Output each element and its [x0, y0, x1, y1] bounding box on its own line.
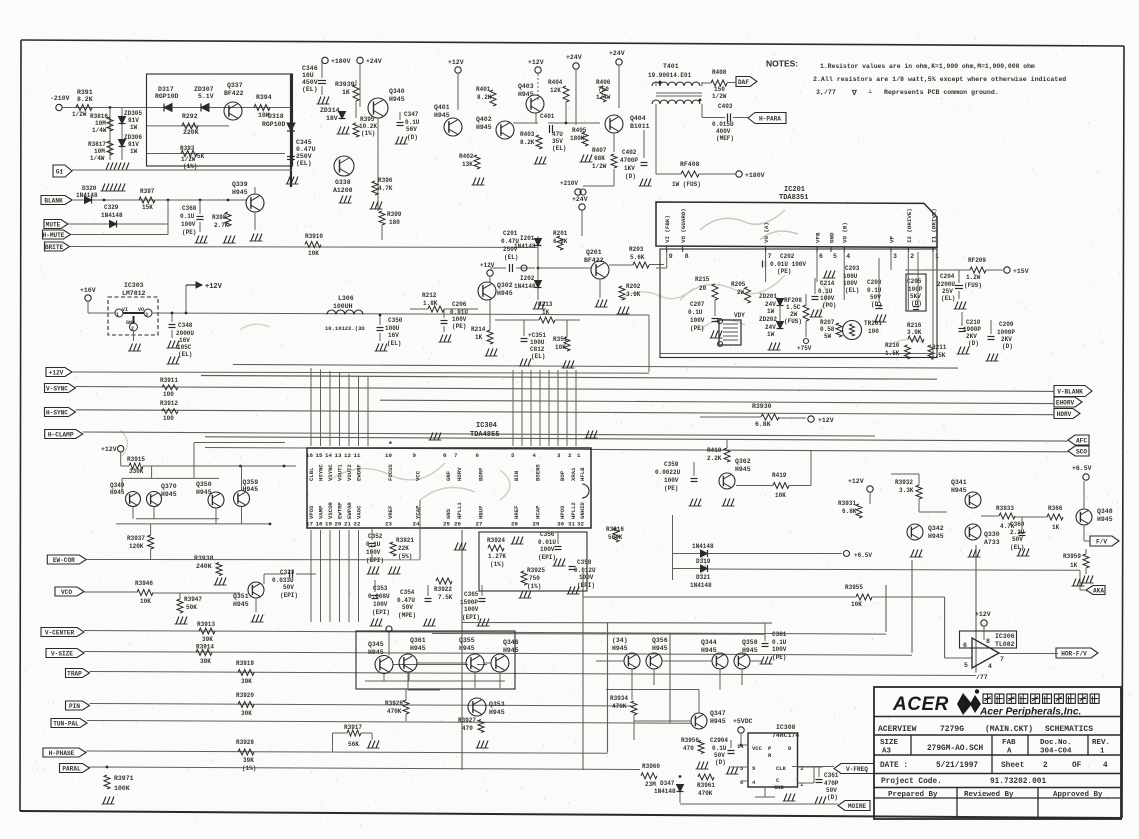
svg-text:C201: C201 [503, 230, 518, 237]
svg-text:1.5C: 1.5C [786, 304, 801, 311]
svg-text:1W (FUS): 1W (FUS) [672, 181, 701, 188]
svg-text:R3912: R3912 [160, 400, 178, 407]
svg-text:H945: H945 [503, 647, 519, 654]
svg-text:R3937: R3937 [127, 535, 145, 542]
svg-text:REV.: REV. [1092, 739, 1110, 747]
svg-text:ZD202: ZD202 [759, 316, 777, 323]
svg-text:MUTE: MUTE [46, 221, 61, 228]
svg-text:(EL): (EL) [552, 145, 566, 152]
svg-text:1K: 1K [542, 309, 550, 316]
svg-text:0.0022U: 0.0022U [655, 469, 681, 476]
svg-text:4.7K: 4.7K [378, 185, 393, 192]
svg-text:10U: 10U [302, 72, 314, 79]
svg-text:50V: 50V [402, 604, 413, 611]
svg-text:(PE): (PE) [182, 229, 196, 236]
svg-text:TDA4855: TDA4855 [470, 431, 499, 439]
svg-text:39K: 39K [241, 678, 252, 685]
svg-text:20: 20 [699, 285, 707, 292]
svg-text:3.9K: 3.9K [907, 329, 922, 336]
svg-text:(EL): (EL) [302, 86, 318, 93]
svg-text:R211: R211 [932, 344, 947, 351]
svg-text:Q401: Q401 [434, 104, 450, 111]
svg-text:+24V: +24V [366, 58, 382, 65]
svg-text:R3920: R3920 [236, 692, 254, 699]
svg-text:100V: 100V [843, 280, 858, 287]
svg-text:R3932: R3932 [895, 479, 913, 486]
svg-text:10K: 10K [775, 492, 786, 499]
svg-text:1N4148: 1N4148 [692, 543, 714, 550]
svg-text:D317: D317 [158, 86, 174, 93]
svg-text:100V: 100V [579, 574, 594, 581]
svg-text:750: 750 [529, 575, 540, 582]
svg-text:Q345: Q345 [368, 641, 384, 648]
svg-text:C812: C812 [530, 346, 545, 353]
svg-text:Q341: Q341 [951, 479, 967, 486]
svg-text:6: 6 [476, 452, 480, 459]
svg-text:(EPI): (EPI) [366, 557, 384, 564]
svg-text:C365: C365 [464, 591, 479, 598]
svg-text:GNS: GNS [445, 508, 452, 519]
svg-text:H945: H945 [161, 491, 177, 498]
svg-text:12: 12 [344, 452, 351, 459]
svg-text:V-SIZE: V-SIZE [51, 650, 73, 657]
svg-text:R3926: R3926 [385, 700, 403, 707]
svg-text:5.1V: 5.1V [198, 93, 214, 100]
svg-text:0.1U: 0.1U [772, 639, 787, 646]
svg-text:NOTES:: NOTES: [766, 59, 798, 69]
svg-text:15K: 15K [142, 204, 153, 211]
svg-text:H945: H945 [476, 124, 492, 131]
svg-text:R3933: R3933 [996, 505, 1014, 512]
svg-text:C403: C403 [718, 103, 733, 110]
svg-text:BRITE: BRITE [45, 244, 64, 251]
svg-text:0.47U: 0.47U [296, 146, 316, 153]
svg-text:100V: 100V [690, 317, 705, 324]
svg-text:0.015U: 0.015U [712, 121, 734, 128]
svg-text:120K: 120K [129, 543, 144, 550]
svg-text:DATE :: DATE : [880, 762, 908, 770]
svg-text:GND: GND [774, 784, 785, 791]
svg-text:7279G: 7279G [940, 725, 964, 734]
svg-text:(EPI): (EPI) [462, 614, 480, 621]
svg-text:H945: H945 [742, 647, 758, 654]
svg-text:D321: D321 [696, 574, 711, 581]
svg-text:C209: C209 [999, 321, 1014, 328]
svg-text:C208: C208 [867, 279, 882, 286]
svg-text:I2 (DRIVE): I2 (DRIVE) [906, 208, 913, 243]
svg-text:VO (A): VO (A) [763, 222, 770, 243]
svg-text:1: 1 [1100, 748, 1105, 756]
svg-text:HSYNC: HSYNC [318, 464, 325, 481]
svg-text:0.01U: 0.01U [538, 539, 556, 546]
svg-text:IC304: IC304 [476, 422, 497, 430]
svg-text:VCC: VCC [752, 745, 763, 752]
svg-text:470K: 470K [698, 790, 713, 797]
svg-text:1500P: 1500P [460, 599, 478, 606]
svg-text:1.2W: 1.2W [966, 274, 981, 281]
svg-text:SCO: SCO [1076, 448, 1087, 455]
svg-text:VO (B): VO (B) [842, 222, 849, 243]
svg-text:(EPI): (EPI) [280, 592, 298, 599]
svg-text:470K: 470K [612, 703, 627, 710]
svg-text:EWPAR: EWPAR [346, 502, 353, 519]
svg-text:C214: C214 [820, 280, 835, 287]
svg-text:R399: R399 [387, 211, 402, 218]
svg-text:Q404: Q404 [630, 115, 646, 122]
svg-text:6: 6 [819, 253, 823, 260]
svg-text:21: 21 [344, 521, 351, 528]
svg-text:A733: A733 [984, 539, 1000, 546]
svg-text:100V: 100V [373, 601, 388, 608]
svg-text:R3961: R3961 [697, 782, 715, 789]
svg-text:180K: 180K [570, 135, 585, 142]
svg-text:(D): (D) [407, 134, 418, 141]
svg-text:C359: C359 [664, 461, 679, 468]
svg-text:G338: G338 [335, 179, 351, 186]
svg-text:H-MUTE: H-MUTE [43, 232, 65, 239]
svg-text:PARAL: PARAL [62, 765, 81, 772]
svg-text:EHORV: EHORV [1056, 399, 1075, 406]
svg-text:8: 8 [443, 452, 447, 459]
svg-text:(EPI): (EPI) [538, 554, 556, 561]
svg-text:7: 7 [1000, 656, 1004, 663]
svg-text:1KV: 1KV [624, 165, 635, 172]
svg-text:I202: I202 [520, 275, 535, 282]
svg-text:39K: 39K [243, 757, 254, 764]
svg-text:BOP: BOP [559, 470, 566, 481]
svg-text:RGP10D: RGP10D [262, 121, 286, 128]
svg-text:R212: R212 [422, 292, 437, 299]
svg-text:Q201: Q201 [586, 249, 602, 256]
svg-text:FAB: FAB [1002, 739, 1016, 747]
svg-text:400V: 400V [716, 128, 731, 135]
svg-text:6: 6 [740, 779, 743, 786]
svg-text:32: 32 [577, 521, 584, 528]
svg-text:R402: R402 [459, 153, 474, 160]
svg-text:C345: C345 [296, 139, 312, 146]
svg-text:R408: R408 [712, 69, 727, 76]
svg-text:AKA: AKA [1093, 587, 1104, 594]
svg-text:(1%): (1%) [527, 583, 541, 590]
svg-text:VSYNC: VSYNC [327, 464, 334, 481]
svg-text:R405: R405 [572, 127, 587, 134]
svg-text:Q339: Q339 [232, 181, 248, 188]
svg-text:5K: 5K [197, 153, 205, 160]
svg-text:1900P: 1900P [963, 326, 981, 333]
svg-text:H945: H945 [701, 647, 717, 654]
svg-text:1/2W: 1/2W [72, 111, 87, 118]
svg-text:47U: 47U [552, 131, 563, 138]
svg-text:R3919: R3919 [236, 660, 254, 667]
svg-text:100U: 100U [843, 273, 858, 280]
svg-text:R394: R394 [256, 94, 272, 101]
svg-text:5: 5 [964, 662, 968, 669]
svg-text:1N4148: 1N4148 [514, 243, 536, 250]
svg-text:6.8K: 6.8K [755, 421, 771, 428]
svg-text:8.2K: 8.2K [77, 96, 93, 103]
svg-text:Q403: Q403 [518, 83, 534, 90]
svg-text:H945: H945 [243, 486, 259, 493]
svg-text:Q358: Q358 [742, 639, 758, 646]
svg-text:0.033U: 0.033U [272, 577, 294, 584]
svg-text:100V: 100V [181, 221, 196, 228]
svg-text:Q353: Q353 [489, 701, 505, 708]
svg-text:35V: 35V [552, 138, 563, 145]
svg-text:IC306: IC306 [995, 633, 1015, 640]
svg-text:Q370: Q370 [161, 483, 177, 490]
svg-text:470K: 470K [387, 708, 402, 715]
svg-text:450V: 450V [302, 79, 318, 86]
svg-text:R3939: R3939 [335, 81, 355, 88]
svg-text:+5VDC: +5VDC [733, 718, 753, 725]
svg-text:R3960: R3960 [642, 763, 660, 770]
svg-text:100UH: 100UH [333, 303, 353, 310]
svg-text:H945: H945 [612, 645, 628, 652]
svg-text:(MAIN.CKT): (MAIN.CKT) [985, 725, 1033, 734]
svg-text:4: 4 [988, 663, 992, 670]
svg-text:C346: C346 [302, 65, 318, 72]
svg-text:EWDRF: EWDRF [356, 464, 363, 481]
svg-text:Q351: Q351 [233, 593, 249, 600]
svg-text:R215: R215 [695, 276, 710, 283]
svg-text:V-FREQ: V-FREQ [846, 766, 868, 773]
svg-text:R398: R398 [212, 214, 227, 221]
svg-text:28: 28 [511, 521, 518, 528]
svg-text:150: 150 [714, 86, 725, 93]
svg-text:C360: C360 [1010, 521, 1025, 528]
svg-text:279GM-AO.SCH: 279GM-AO.SCH [927, 745, 983, 753]
svg-text:+75V: +75V [797, 345, 812, 352]
svg-text:12K: 12K [550, 87, 561, 94]
svg-text:I1 (DRIVE): I1 (DRIVE) [931, 208, 938, 243]
svg-text:+15V: +15V [1013, 268, 1029, 275]
svg-text:2: 2 [1043, 762, 1048, 770]
svg-text:BLANK: BLANK [44, 197, 63, 204]
svg-text:1N4148: 1N4148 [76, 192, 98, 199]
svg-text:H945: H945 [232, 189, 248, 196]
svg-text:R3816: R3816 [90, 113, 108, 120]
svg-text:+24V: +24V [572, 196, 588, 203]
svg-text:H945: H945 [951, 487, 967, 494]
svg-text:SIZE: SIZE [880, 739, 899, 747]
svg-text:4: 4 [846, 253, 850, 260]
svg-text:R407: R407 [592, 147, 607, 154]
svg-text:BF422: BF422 [224, 90, 244, 97]
svg-text:5/21/1997: 5/21/1997 [936, 762, 978, 770]
svg-text:100K: 100K [114, 785, 130, 792]
svg-text:C206: C206 [452, 301, 467, 308]
svg-text:+24V: +24V [609, 50, 625, 57]
svg-text:Q337: Q337 [227, 82, 243, 89]
svg-text:0.1U: 0.1U [405, 119, 420, 126]
svg-text:1W: 1W [767, 331, 775, 338]
svg-text:1K: 1K [342, 89, 350, 96]
svg-text:750: 750 [598, 86, 609, 93]
svg-text:50V: 50V [826, 787, 837, 794]
svg-text:XRA1: XRA1 [570, 467, 577, 481]
svg-text:R406: R406 [596, 79, 611, 86]
svg-text:1N4148: 1N4148 [690, 582, 712, 589]
svg-text:H945: H945 [652, 645, 668, 652]
svg-text:1/2W: 1/2W [712, 93, 727, 100]
svg-text:H-PARA: H-PARA [759, 115, 781, 122]
svg-text:TRAP: TRAP [67, 670, 82, 677]
svg-text:∇: ∇ [851, 89, 857, 98]
svg-text:FOCUS: FOCUS [387, 464, 394, 481]
svg-text:D320: D320 [82, 185, 97, 192]
svg-text:0.01U 100V: 0.01U 100V [770, 261, 806, 268]
svg-text:(EL): (EL) [845, 287, 859, 294]
svg-text:HPLL1: HPLL1 [456, 502, 463, 519]
svg-text:(PE): (PE) [452, 323, 466, 330]
svg-text:Q362: Q362 [735, 458, 751, 465]
svg-text:31: 31 [568, 521, 575, 528]
svg-text:3.3K: 3.3K [899, 487, 914, 494]
svg-text:1000P: 1000P [997, 329, 1015, 336]
svg-text:R3914: R3914 [196, 644, 214, 651]
svg-text:1N4148: 1N4148 [101, 212, 123, 219]
svg-text:R3956: R3956 [681, 737, 699, 744]
svg-text:50V: 50V [1012, 536, 1023, 543]
svg-text:(FUS): (FUS) [964, 282, 982, 289]
svg-text:R366: R366 [1048, 505, 1063, 512]
svg-text:1/4W: 1/4W [90, 155, 105, 162]
svg-text:R3915: R3915 [127, 456, 145, 463]
svg-text:29: 29 [532, 521, 539, 528]
svg-text:240K: 240K [196, 563, 212, 570]
svg-text:RF209: RF209 [968, 257, 986, 264]
svg-text:2.7K: 2.7K [214, 222, 229, 229]
svg-text:+12V: +12V [448, 59, 464, 66]
svg-text:LM7812: LM7812 [122, 290, 146, 297]
svg-text:Q342: Q342 [928, 525, 944, 532]
svg-text:C350: C350 [388, 317, 403, 324]
svg-text:C347: C347 [404, 111, 419, 118]
svg-text:R3938: R3938 [194, 555, 214, 562]
svg-text:Q344: Q344 [701, 639, 717, 646]
svg-text:23M: 23M [645, 781, 656, 788]
svg-text:PIN: PIN [69, 703, 80, 710]
svg-text:VDY: VDY [734, 312, 745, 319]
svg-text:(D): (D) [827, 794, 838, 801]
svg-text:0.1U: 0.1U [818, 288, 833, 295]
svg-text:R391: R391 [77, 89, 93, 96]
svg-text:H945: H945 [928, 533, 944, 540]
svg-text:(D): (D) [968, 340, 979, 347]
svg-text:30K: 30K [241, 710, 252, 717]
svg-text:8.2K: 8.2K [477, 94, 492, 101]
svg-text:R418: R418 [707, 447, 722, 454]
svg-text:C207: C207 [690, 301, 705, 308]
svg-text:VO (GUARD): VO (GUARD) [680, 208, 687, 243]
svg-text:2W: 2W [790, 311, 798, 318]
svg-text:H945: H945 [389, 96, 405, 103]
svg-text:TL082: TL082 [995, 641, 1015, 648]
svg-text:8: 8 [685, 253, 689, 260]
svg-text:1.Resistor values are in ohm,K: 1.Resistor values are in ohm,K=1,000 ohm… [820, 63, 1035, 70]
svg-text:R214: R214 [471, 326, 486, 333]
svg-text:26: 26 [454, 521, 461, 528]
svg-text:Q346: Q346 [503, 639, 519, 646]
svg-text:R3924: R3924 [487, 537, 505, 544]
svg-text:5: 5 [511, 452, 515, 459]
svg-text:HFLB: HFLB [579, 467, 586, 481]
svg-text:16V: 16V [388, 332, 399, 339]
svg-text:MOIRE: MOIRE [848, 803, 867, 810]
svg-text:9: 9 [752, 765, 755, 772]
svg-text:HDRV: HDRV [1057, 411, 1072, 418]
svg-text:V-BLANK: V-BLANK [1057, 388, 1083, 395]
svg-text:14: 14 [737, 743, 744, 750]
svg-text:H945: H945 [233, 601, 249, 608]
svg-text:ACER: ACER [892, 694, 949, 715]
svg-text:100V: 100V [366, 549, 381, 556]
svg-text:R3930: R3930 [752, 403, 772, 410]
svg-text:GND: GND [829, 232, 836, 243]
svg-text:R3916: R3916 [606, 526, 624, 533]
svg-text:50V: 50V [283, 584, 294, 591]
svg-text:V-SYNC: V-SYNC [46, 385, 68, 392]
svg-text:H945: H945 [735, 466, 751, 473]
svg-text:+12V: +12V [49, 369, 64, 376]
svg-text:10: 10 [385, 452, 392, 459]
svg-text:Q349: Q349 [110, 482, 125, 489]
svg-text:C368: C368 [182, 205, 197, 212]
svg-text:R3955: R3955 [845, 584, 863, 591]
svg-text:+12V: +12V [205, 283, 223, 291]
svg-text:H945: H945 [518, 91, 534, 98]
svg-text:27: 27 [476, 521, 483, 528]
svg-text:Project Code.: Project Code. [881, 778, 942, 786]
svg-text:VOUT2: VOUT2 [346, 464, 353, 481]
svg-text:HDRV: HDRV [456, 467, 463, 481]
svg-text:22K: 22K [398, 545, 409, 552]
svg-text:100U: 100U [385, 325, 400, 332]
svg-text:TDA8351: TDA8351 [779, 194, 808, 202]
svg-text:30: 30 [557, 521, 564, 528]
svg-text:D347: D347 [660, 780, 675, 787]
svg-text:470: 470 [683, 745, 694, 752]
svg-text:+210V: +210V [560, 180, 578, 187]
svg-text:R3946: R3946 [135, 580, 153, 587]
svg-text:VFB: VFB [815, 232, 822, 243]
svg-text:H945: H945 [434, 112, 450, 119]
svg-text:V-CENTER: V-CENTER [45, 629, 75, 636]
svg-text:AFC: AFC [1076, 437, 1087, 444]
svg-text:1W: 1W [767, 308, 775, 315]
svg-text:10.10122.(3Ω: 10.10122.(3Ω [325, 325, 365, 332]
svg-text:1: 1 [577, 452, 581, 459]
svg-text:A1208: A1208 [333, 187, 353, 194]
svg-text:16: 16 [306, 452, 313, 459]
svg-text:1K: 1K [1052, 524, 1060, 531]
svg-text:3.9K: 3.9K [626, 291, 641, 298]
svg-text:10K: 10K [140, 598, 151, 605]
svg-text:H945: H945 [1097, 516, 1113, 523]
svg-text:-210V: -210V [50, 95, 70, 102]
svg-text:(1%): (1%) [183, 163, 197, 170]
svg-text:(FUS): (FUS) [784, 318, 802, 325]
svg-text:5W: 5W [824, 333, 832, 340]
svg-text:(EL): (EL) [178, 351, 192, 358]
svg-text:2.2K: 2.2K [707, 455, 722, 462]
svg-text:100V: 100V [464, 606, 479, 613]
svg-text:R203: R203 [629, 246, 644, 253]
svg-text:1.8K: 1.8K [423, 300, 438, 307]
svg-text:H-PHASE: H-PHASE [49, 750, 75, 757]
svg-text:D319: D319 [696, 558, 711, 565]
svg-text:304-C04: 304-C04 [1040, 748, 1072, 756]
